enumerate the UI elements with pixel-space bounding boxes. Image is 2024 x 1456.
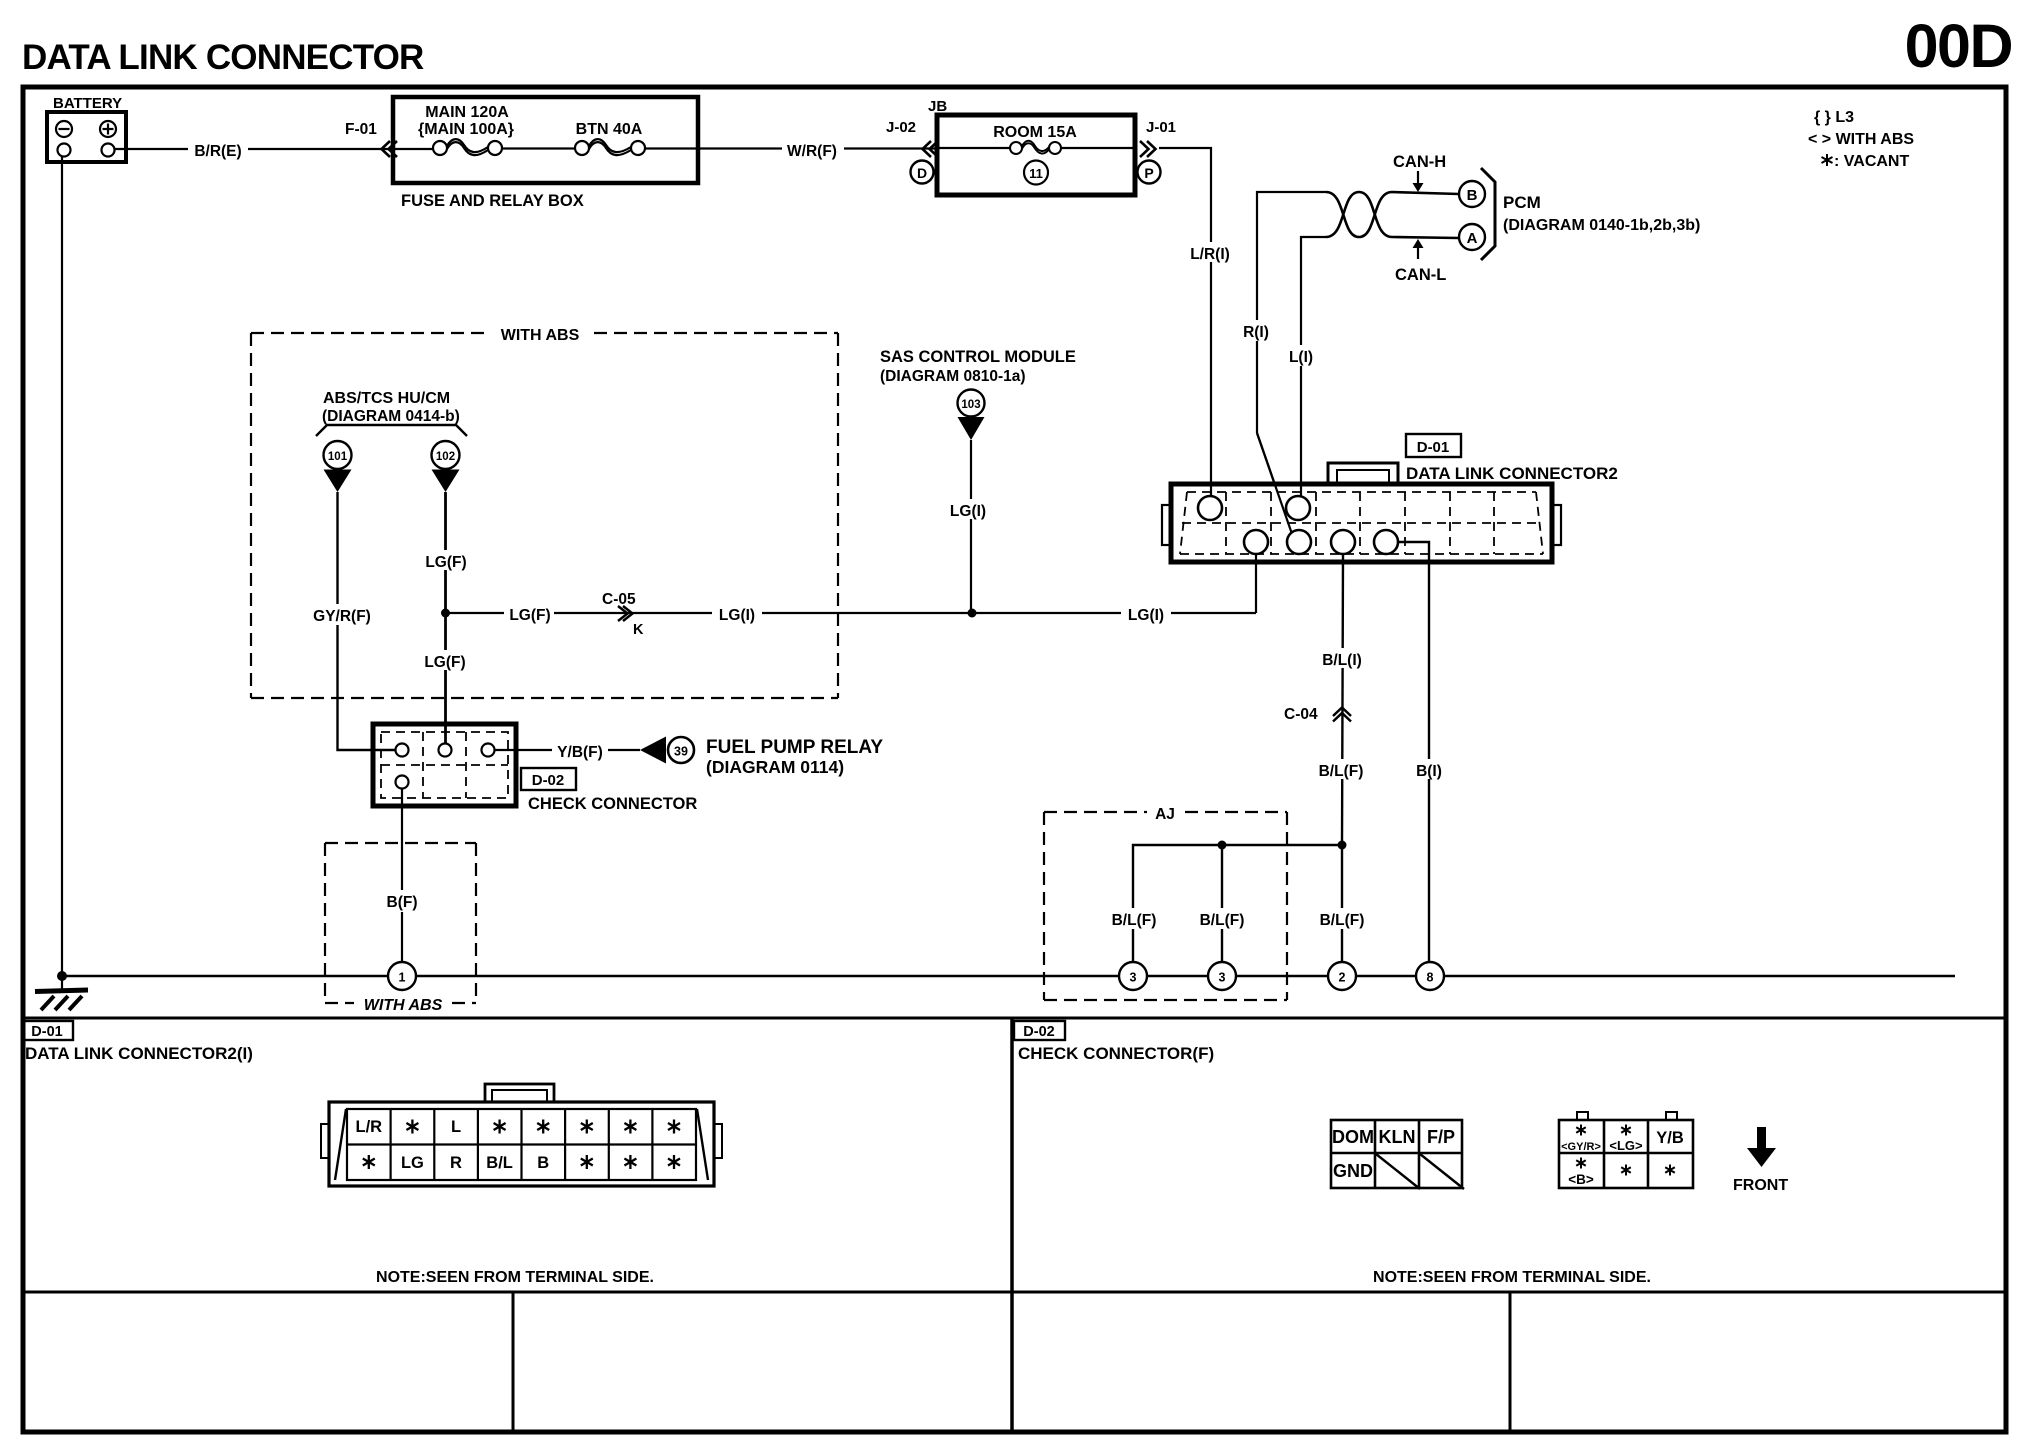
data link connector2 housing xyxy=(1328,463,1398,484)
ground terminal 3 left xyxy=(1119,962,1147,990)
svg-text:D-01: D-01 xyxy=(1417,439,1450,456)
wire B/L(I) pin drop xyxy=(1342,554,1343,845)
svg-text:ROOM 15A: ROOM 15A xyxy=(993,124,1077,141)
pin B/L of D-01 xyxy=(1331,530,1355,554)
svg-text:: VACANT: : VACANT xyxy=(1834,153,1909,170)
svg-text:L(I): L(I) xyxy=(1289,349,1313,366)
wire B/R(E) battery to fuse box xyxy=(115,148,394,150)
svg-text:(DIAGRAM 0140-1b,2b,3b): (DIAGRAM 0140-1b,2b,3b) xyxy=(1503,217,1700,234)
terminal A circle xyxy=(1459,224,1485,250)
front direction arrow xyxy=(1757,1127,1766,1148)
wire B/L(F) branch in AJ xyxy=(1133,845,1342,962)
svg-text:B/L(F): B/L(F) xyxy=(1319,763,1364,780)
svg-text:GY/R(F): GY/R(F) xyxy=(313,608,371,625)
check connector vacant table xyxy=(1559,1112,1693,1188)
svg-text:C-04: C-04 xyxy=(1284,706,1318,723)
data link connector2 inner dashed grid xyxy=(1180,492,1543,554)
connector D-01 section label box xyxy=(22,1021,73,1040)
terminal B circle xyxy=(1459,181,1485,207)
twisted pair wires xyxy=(1326,192,1459,238)
pin R of D-01 xyxy=(1287,530,1311,554)
pinout labels row 2 xyxy=(363,1155,375,1169)
svg-text:<GY/R>: <GY/R> xyxy=(1561,1141,1601,1153)
svg-text:FRONT: FRONT xyxy=(1733,1177,1788,1194)
svg-text:LG(I): LG(I) xyxy=(719,607,755,624)
pin 3 of check connector xyxy=(482,744,495,757)
svg-text:D-02: D-02 xyxy=(1023,1024,1054,1040)
fuse MAIN 120A xyxy=(393,139,575,155)
connector D-01 label box xyxy=(1406,434,1461,457)
ground terminal 2 xyxy=(1328,962,1356,990)
connector J-02 chevron xyxy=(923,141,939,157)
wire L(I) to CAN-L xyxy=(1301,237,1326,496)
svg-text:<LG>: <LG> xyxy=(1609,1138,1643,1153)
svg-text:DATA LINK CONNECTOR2(I): DATA LINK CONNECTOR2(I) xyxy=(25,1044,253,1063)
svg-text:NOTE:SEEN FROM TERMINAL SIDE.: NOTE:SEEN FROM TERMINAL SIDE. xyxy=(1373,1269,1651,1286)
svg-text:W/R(F): W/R(F) xyxy=(787,143,837,160)
wire W/R(F) fuse box to JB xyxy=(698,147,937,149)
svg-text:3: 3 xyxy=(1130,971,1137,985)
PCM bracket xyxy=(1481,168,1495,260)
svg-text:A: A xyxy=(1467,230,1478,247)
svg-text:(DIAGRAM 0414-b): (DIAGRAM 0414-b) xyxy=(322,408,460,425)
svg-text:J-02: J-02 xyxy=(886,119,916,136)
terminal P circle xyxy=(1138,161,1161,184)
wire B(F) to ground terminal 1 xyxy=(401,789,403,963)
svg-text:F-01: F-01 xyxy=(345,121,377,138)
svg-text:FUEL PUMP RELAY: FUEL PUMP RELAY xyxy=(706,737,883,758)
svg-text:(DIAGRAM 0810-1a): (DIAGRAM 0810-1a) xyxy=(880,368,1026,385)
svg-text:103: 103 xyxy=(961,399,980,411)
svg-text:CHECK CONNECTOR(F): CHECK CONNECTOR(F) xyxy=(1018,1044,1214,1063)
battery xyxy=(47,95,126,162)
svg-text:L/R: L/R xyxy=(356,1118,383,1136)
connector D-02 label box xyxy=(521,768,576,790)
terminal 103 xyxy=(958,390,985,417)
ground bus wire xyxy=(62,975,1955,977)
svg-text:NOTE:SEEN FROM TERMINAL SIDE.: NOTE:SEEN FROM TERMINAL SIDE. xyxy=(376,1269,654,1286)
svg-text:PCM: PCM xyxy=(1503,193,1541,212)
ground symbol xyxy=(61,976,63,990)
JB box xyxy=(937,115,1135,195)
svg-text:B: B xyxy=(1467,187,1478,204)
svg-text:B/R(E): B/R(E) xyxy=(194,143,241,160)
terminal 102 xyxy=(432,441,460,469)
svg-text:LG(F): LG(F) xyxy=(424,654,465,671)
svg-text:< > WITH ABS: < > WITH ABS xyxy=(1808,131,1914,148)
svg-text:MAIN 120A: MAIN 120A xyxy=(425,104,509,121)
svg-text:B: B xyxy=(537,1154,549,1172)
node junction LG at SAS wire xyxy=(968,609,977,618)
pin LG of D-01 xyxy=(1244,530,1268,554)
fuse ROOM 15A xyxy=(937,141,1135,154)
svg-text:(DIAGRAM 0114): (DIAGRAM 0114) xyxy=(706,757,844,777)
svg-text:F/P: F/P xyxy=(1427,1127,1455,1147)
svg-text:102: 102 xyxy=(436,451,455,463)
ground terminal 1 xyxy=(388,962,416,990)
svg-text:WITH ABS: WITH ABS xyxy=(364,997,443,1014)
wire stubs into D-01 pins xyxy=(1210,484,1212,498)
svg-text:LG(I): LG(I) xyxy=(1128,607,1164,624)
pin B of D-01 xyxy=(1374,530,1398,554)
check connector D-02 housing xyxy=(373,724,516,806)
connector D-02 section label box xyxy=(1014,1021,1065,1040)
svg-text:BATTERY: BATTERY xyxy=(53,95,122,112)
node junction AJ right xyxy=(1338,841,1347,850)
svg-text:BTN 40A: BTN 40A xyxy=(576,121,643,138)
svg-text:SAS CONTROL MODULE: SAS CONTROL MODULE xyxy=(880,348,1076,366)
terminal 101 xyxy=(324,441,352,469)
pin 4 of check connector xyxy=(396,776,409,789)
svg-text:D: D xyxy=(917,165,927,181)
svg-text:B/L(F): B/L(F) xyxy=(1320,912,1365,929)
dashed box WITH ABS upper xyxy=(251,333,838,698)
svg-text:<B>: <B> xyxy=(1568,1172,1594,1187)
svg-text:{MAIN 100A}: {MAIN 100A} xyxy=(418,121,514,138)
pin 1 of check connector xyxy=(396,744,409,757)
brace under ABS label xyxy=(316,425,467,436)
svg-text:FUSE AND RELAY BOX: FUSE AND RELAY BOX xyxy=(401,192,584,210)
svg-text:B/L(F): B/L(F) xyxy=(1112,912,1157,929)
svg-text:CAN-H: CAN-H xyxy=(1393,153,1446,171)
svg-text:{ } L3: { } L3 xyxy=(1814,109,1854,126)
svg-text:ABS/TCS HU/CM: ABS/TCS HU/CM xyxy=(323,390,450,407)
svg-text:B/L(F): B/L(F) xyxy=(1200,912,1245,929)
svg-text:B/L: B/L xyxy=(486,1154,513,1172)
svg-text:J-01: J-01 xyxy=(1146,119,1176,136)
svg-text:LG: LG xyxy=(401,1154,424,1172)
svg-text:KLN: KLN xyxy=(1379,1127,1416,1147)
svg-text:B(I): B(I) xyxy=(1416,763,1442,780)
terminal D circle xyxy=(911,161,934,184)
svg-text:1: 1 xyxy=(399,971,406,985)
ground terminal 8 xyxy=(1416,962,1444,990)
svg-text:DATA LINK CONNECTOR2: DATA LINK CONNECTOR2 xyxy=(1406,464,1618,483)
svg-text:LG(F): LG(F) xyxy=(509,607,550,624)
svg-text:B(F): B(F) xyxy=(387,894,418,911)
svg-text:101: 101 xyxy=(328,451,348,463)
svg-text:39: 39 xyxy=(674,745,688,759)
data link connector2 pinout grid xyxy=(347,1109,696,1180)
fuel pump relay arrow xyxy=(640,737,666,764)
svg-text:D-01: D-01 xyxy=(31,1024,62,1040)
legend VACANT xyxy=(1822,154,1833,166)
svg-text:R: R xyxy=(450,1154,462,1172)
svg-text:R(I): R(I) xyxy=(1243,324,1269,341)
wire GY/R(F) from 101 to check connector xyxy=(338,492,396,750)
svg-text:L/R(I): L/R(I) xyxy=(1190,246,1230,263)
data link connector2 pinout housing xyxy=(485,1084,554,1102)
svg-text:2: 2 xyxy=(1339,971,1346,985)
svg-text:DATA LINK CONNECTOR: DATA LINK CONNECTOR xyxy=(22,38,424,77)
dashed box AJ xyxy=(1044,812,1287,1000)
pin L/R of D-01 xyxy=(1198,496,1222,520)
svg-text:K: K xyxy=(633,622,644,638)
svg-text:LG(I): LG(I) xyxy=(950,503,986,520)
svg-text:Y/B(F): Y/B(F) xyxy=(557,744,603,761)
svg-text:00D: 00D xyxy=(1905,12,2012,80)
svg-text:WITH ABS: WITH ABS xyxy=(501,327,580,344)
svg-text:3: 3 xyxy=(1219,971,1226,985)
svg-text:D-02: D-02 xyxy=(532,772,565,789)
terminal 39 circle xyxy=(668,737,694,763)
dashed box WITH ABS lower xyxy=(325,843,476,1003)
wire stubs into check connector pins xyxy=(374,749,396,751)
ground terminal 3 right xyxy=(1208,962,1236,990)
wire LG pin riser xyxy=(1255,554,1257,613)
svg-text:GND: GND xyxy=(1333,1161,1373,1181)
svg-text:B/L(I): B/L(I) xyxy=(1322,652,1362,669)
connector J-01 chevron xyxy=(1140,141,1156,157)
svg-text:JB: JB xyxy=(928,98,947,115)
node junction AJ left xyxy=(1218,841,1227,850)
fuse number 11 circle xyxy=(1024,161,1048,185)
svg-text:AJ: AJ xyxy=(1155,806,1175,823)
svg-text:CAN-L: CAN-L xyxy=(1395,266,1446,284)
svg-text:LG(F): LG(F) xyxy=(425,554,466,571)
wire R(I) to CAN-H xyxy=(1257,192,1326,433)
wire Y/B(F) to fuel pump relay xyxy=(495,749,641,751)
check connector pinout table xyxy=(1331,1120,1462,1188)
pin L of D-01 xyxy=(1286,496,1310,520)
svg-text:L: L xyxy=(451,1118,461,1136)
svg-text:P: P xyxy=(1144,165,1153,181)
wire L/R(I) JB to data link connector2 xyxy=(1159,148,1211,496)
fuse and relay box xyxy=(393,97,698,183)
svg-text:Y/B: Y/B xyxy=(1656,1129,1684,1147)
pin 2 of check connector xyxy=(439,744,452,757)
node junction LG(F) at 102 wire xyxy=(441,609,450,618)
svg-text:DOM: DOM xyxy=(1332,1127,1374,1147)
wire LG horizontal run to data link connector2 xyxy=(446,612,1257,614)
svg-text:CHECK CONNECTOR: CHECK CONNECTOR xyxy=(528,795,697,813)
wire LG(F) from 102 to check connector xyxy=(444,492,447,744)
svg-text:11: 11 xyxy=(1029,166,1043,181)
wire LG(I) from SAS to LG run xyxy=(970,440,972,613)
wire battery negative drop xyxy=(61,157,63,977)
wire B(I) pin to terminal 8 xyxy=(1398,542,1429,962)
svg-text:8: 8 xyxy=(1427,971,1434,985)
node junction ground at battery xyxy=(57,971,67,981)
fuse BTN 40A xyxy=(575,139,698,155)
